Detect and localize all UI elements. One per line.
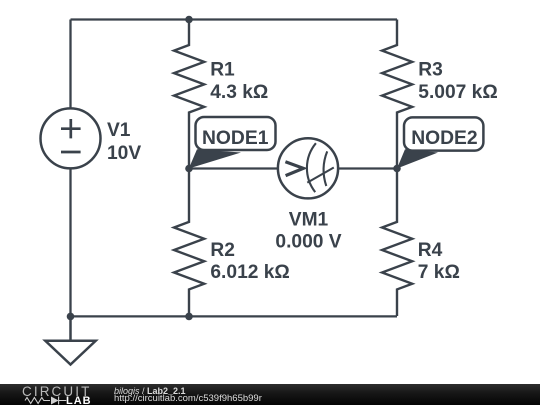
- svg-text:LAB: LAB: [66, 395, 92, 405]
- svg-text:6.012 kΩ: 6.012 kΩ: [210, 262, 289, 283]
- svg-text:NODE2: NODE2: [411, 128, 477, 149]
- svg-text:4.3 kΩ: 4.3 kΩ: [210, 82, 268, 103]
- svg-text:R1: R1: [210, 60, 235, 81]
- svg-text:R4: R4: [418, 240, 443, 261]
- svg-text:R3: R3: [418, 60, 443, 81]
- svg-text:V1: V1: [107, 120, 131, 141]
- svg-text:NODE1: NODE1: [202, 128, 269, 149]
- svg-text:10V: 10V: [107, 143, 141, 164]
- svg-text:R2: R2: [210, 240, 235, 261]
- svg-text:5.007 kΩ: 5.007 kΩ: [418, 82, 497, 103]
- svg-text:VM1: VM1: [289, 210, 329, 231]
- svg-text:0.000 V: 0.000 V: [275, 231, 341, 252]
- svg-text:7 kΩ: 7 kΩ: [418, 262, 460, 283]
